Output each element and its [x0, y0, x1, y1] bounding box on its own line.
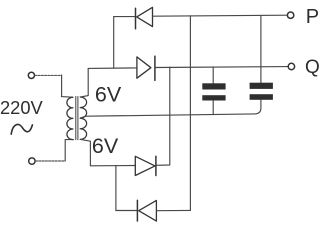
capacitor C1 bottom plate: [202, 95, 225, 100]
wire: branch from P rail down to D4 anode wire: [189, 16, 191, 211]
wire: D3 cathode branch up to Q rail: [156, 67, 170, 165]
capacitor C2 bottom plate: [250, 94, 273, 100]
wire: bottom-left terminal to transformer primary bottom: [35, 160, 65, 162]
wire: junction node B down to D4 cathode wire: [115, 166, 117, 211]
wire: to diode D1 cathode: [114, 16, 135, 18]
wire: node B horizontal to diode D3 anode: [90, 165, 135, 167]
diode D4 cathode bar: [136, 200, 138, 221]
wire: D1 branch vertical from node A: [113, 17, 115, 69]
wire: D4 cathode wire: [116, 210, 137, 212]
transformer T1 primary winding: [67, 97, 73, 139]
wire: branch from P rail down to capacitor C2: [260, 16, 262, 83]
terminal P: [287, 12, 293, 18]
svg-text:Q: Q: [305, 57, 320, 78]
diode D1 triangle: [137, 7, 153, 26]
svg-text:6V: 6V: [92, 134, 119, 158]
svg-text:P: P: [306, 6, 319, 28]
wire: secondary top lead up to node A: [81, 68, 89, 97]
wire: capacitor C1 bottom lead: [212, 101, 214, 115]
terminal bottom-left: [29, 158, 35, 164]
wire: Q rail: [155, 66, 288, 69]
capacitor C1 top plate: [202, 83, 225, 89]
wire: node A horizontal to diode D2 anode: [88, 67, 137, 70]
diode D1 cathode bar: [135, 8, 137, 29]
terminal Q: [288, 63, 294, 69]
diode D2 cathode bar: [154, 56, 156, 80]
terminal top-left: [28, 72, 34, 78]
transformer T1 secondary winding (center-tapped): [80, 97, 86, 139]
diode D3 cathode bar: [155, 156, 157, 175]
diode D3 triangle: [135, 156, 155, 175]
svg-text:6V: 6V: [95, 82, 122, 106]
svg-text:220V: 220V: [0, 97, 44, 118]
capacitor C2 top plate: [250, 83, 273, 89]
wire: top-left terminal to transformer primary top: [35, 74, 62, 76]
AC sine symbol: [11, 124, 32, 134]
transformer core: [76, 97, 78, 140]
wire: center-tap rail to capacitor C2 bottom: [80, 100, 261, 118]
wire: D4 anode wire to P-rail branch: [156, 209, 190, 211]
wire: P rail: [153, 15, 288, 16]
wire: capacitor C1 top lead from Q rail: [212, 67, 214, 84]
diode D2 triangle: [137, 57, 151, 78]
diode D4 triangle: [139, 200, 157, 221]
wire: secondary bottom lead down to node B: [81, 139, 91, 165]
